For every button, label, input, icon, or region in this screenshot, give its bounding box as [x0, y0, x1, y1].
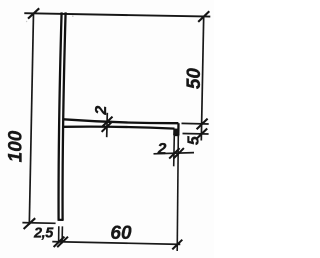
tick bottom of 50 — [197, 119, 208, 130]
tick bottom of 5 — [196, 129, 207, 140]
tick top of 50 — [198, 11, 209, 22]
lip solid fill — [174, 129, 179, 136]
dimension line 60 (bottom horizontal) — [52, 242, 180, 245]
svg-text:5: 5 — [185, 135, 202, 145]
extension line top (shared by dims 100 and 50) — [24, 13, 210, 16]
extension line lip-bottom right — [183, 133, 209, 136]
lip bottom cap — [173, 134, 179, 136]
dimension line 100 (left vertical) — [29, 13, 33, 224]
speckle top-left — [26, 21, 27, 22]
lip inner line — [173, 129, 175, 135]
svg-text:2,5: 2,5 — [33, 226, 54, 242]
tick a of lip 2 — [169, 148, 179, 158]
tick b of lip 2 — [174, 148, 184, 158]
tick top of 100 — [28, 8, 39, 18]
svg-text:100: 100 — [6, 130, 27, 162]
svg-text:60: 60 — [110, 223, 132, 244]
tick left-b of 60 — [57, 237, 68, 247]
extension line lip outer downward (to 60 dim) — [177, 135, 178, 251]
flange bottom line — [64, 127, 175, 129]
web inner (right) line of profile — [63, 12, 66, 220]
web bottom cap — [58, 219, 64, 221]
flange top line — [64, 119, 179, 123]
tick bottom of 100 — [24, 218, 36, 229]
dimension line 2 (lip thickness, horizontal) — [154, 153, 195, 154]
dimension line 2 (flange thickness, vertical) — [106, 113, 109, 137]
speckle near top — [72, 15, 74, 17]
svg-text:2: 2 — [157, 141, 167, 158]
tick right of 60 — [172, 240, 182, 250]
svg-text:2: 2 — [93, 106, 110, 116]
tick b of flange 2 — [102, 121, 113, 131]
extension web-left downward — [58, 226, 60, 243]
paper background — [0, 0, 214, 258]
extension line bottom left — [22, 222, 55, 225]
svg-text:50: 50 — [184, 68, 205, 90]
dimension line 50/5 (right vertical) — [201, 16, 203, 140]
lip outer line — [177, 123, 179, 135]
extension line lip inner downward — [173, 135, 176, 167]
tick a of flange 2 — [102, 117, 113, 128]
tick left-a of 60 — [54, 237, 65, 247]
extension line flange-top right — [182, 122, 209, 125]
extension web-right downward — [61, 226, 63, 243]
web outer (left) line of profile — [59, 12, 62, 219]
